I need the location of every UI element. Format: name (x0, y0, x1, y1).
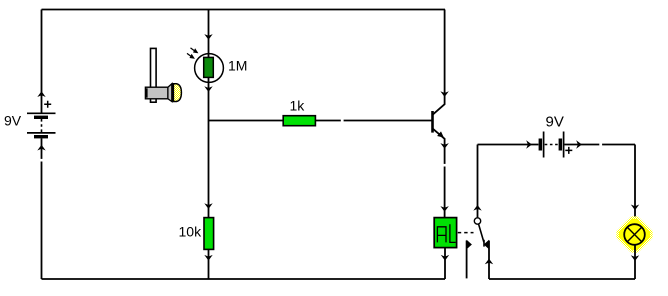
switch lever (479, 224, 484, 246)
flashlight body (145, 87, 168, 99)
wire top rail left circuit (42, 9, 446, 11)
wire left battery branch lower (41, 138, 43, 279)
LDR light arrow 2 (187, 53, 194, 58)
LDR R1 circle (195, 54, 224, 83)
battery B1 plus label (44, 101, 51, 108)
transistor Q1 collector lead (433, 10, 445, 115)
wire below relay coil (444, 248, 446, 279)
battery B2 cell1 long plate (543, 132, 545, 158)
current gap base wire (341, 118, 344, 122)
relay coil RL label (437, 224, 455, 242)
wire switch pole from right circuit (477, 145, 479, 218)
svg-text:10k: 10k (179, 224, 203, 240)
LDR light arrow 1 (191, 48, 198, 53)
current arrow right after battery B2 (576, 140, 582, 148)
switch contact NO triangle (484, 240, 489, 250)
current arrow down below LDR (204, 86, 212, 92)
wire lamp branch lower (634, 245, 636, 279)
wire top rail right circuit left segment (478, 144, 539, 146)
flashlight slider track (151, 48, 157, 102)
current arrow down below relay coil (441, 255, 449, 261)
current arrow up switch pole (473, 205, 481, 211)
current arrow up above battery B1 (37, 91, 45, 97)
battery B2 plus label (565, 147, 572, 154)
current arrow right before battery B2 (526, 140, 532, 148)
relay dashed actuation link (458, 232, 474, 234)
switch pivot circle (474, 218, 480, 224)
current arrow up contact wire (485, 259, 493, 265)
current gap emitter wire (443, 164, 447, 167)
current gap right top rail (599, 142, 602, 146)
switch contact NC triangle (467, 240, 472, 250)
current arrow down above lamp (631, 205, 639, 211)
wire switch contact NC stub (466, 241, 468, 279)
svg-text:1k: 1k (290, 98, 306, 114)
battery B1 cell1 thick plate (34, 116, 48, 119)
current arrow down above LDR (204, 34, 212, 40)
transistor Q1 emitter lead (433, 128, 445, 217)
wire lamp branch upper (634, 145, 636, 225)
lamp glow halo solid (619, 219, 650, 250)
wire base from junction to transistor (209, 120, 433, 122)
flashlight body end cap (145, 88, 148, 97)
wire bottom rail left circuit (42, 278, 446, 280)
battery B2 cell1 thick plate (539, 139, 543, 151)
battery B1 cell2 long plate (27, 132, 56, 134)
current arrow down below resistor R2 (204, 255, 212, 261)
lamp glow halo dithered fringe (616, 216, 652, 252)
wire LDR branch middle (208, 83, 210, 218)
current arrow down above relay coil RL (440, 206, 448, 212)
wire top rail right circuit right segment (565, 144, 636, 146)
transistor Q1 base bar (431, 111, 434, 133)
battery B2 dashed cell link (545, 144, 559, 146)
LDR R1 green element (204, 57, 214, 77)
lamp L1 cross (627, 227, 641, 241)
lamp L1 bulb circle (624, 224, 645, 245)
current arrow down below emitter (440, 143, 448, 149)
battery B1 cell1 long plate (27, 112, 56, 114)
battery B1 dashed cell link (41, 119, 43, 133)
battery B2 cell2 thick plate (559, 139, 563, 151)
wire below resistor R2 (208, 249, 210, 279)
current arrow up below battery B1 (37, 145, 45, 151)
current arrow down collector (440, 91, 448, 97)
flashlight bezel rim (171, 83, 173, 101)
svg-text:9V: 9V (4, 113, 22, 129)
resistor R2 10k body (204, 218, 214, 250)
svg-text:1M: 1M (228, 57, 247, 73)
flashlight lens (173, 84, 181, 102)
svg-text:9V: 9V (546, 113, 564, 130)
flashlight bezel (168, 84, 172, 102)
wire left battery branch upper (41, 10, 43, 114)
battery B1 cell2 thick plate (34, 135, 48, 138)
current arrow down below lamp (631, 255, 639, 261)
wire bottom rail right circuit (489, 278, 635, 280)
relay coil RL body (434, 218, 456, 248)
current gap left wire (39, 159, 43, 162)
wire LDR branch through circle (208, 10, 210, 83)
current arrow down above resistor R2 (204, 203, 212, 209)
transistor Q1 emitter arrowhead (437, 131, 444, 137)
resistor R3 1k body (283, 116, 315, 126)
battery B2 cell2 long plate (563, 132, 565, 158)
wire switch contact NO to rail (488, 241, 490, 280)
